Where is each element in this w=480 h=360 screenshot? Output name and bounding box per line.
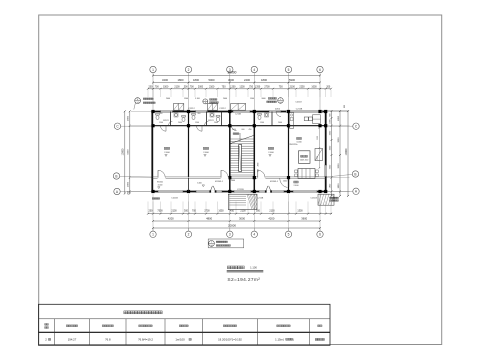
door arc office2 at B line bbox=[221, 176, 229, 178]
svg-text:3: 3 bbox=[229, 233, 231, 237]
svg-text:1500: 1500 bbox=[163, 87, 169, 89]
entrance steps bbox=[229, 195, 246, 197]
svg-text:600: 600 bbox=[242, 129, 245, 131]
elevator label bbox=[301, 155, 303, 157]
svg-text:1500: 1500 bbox=[184, 98, 188, 100]
interior railing line axis B (double thin) bbox=[152, 176, 325, 178]
svg-text:1800: 1800 bbox=[261, 78, 267, 82]
svg-text:1050: 1050 bbox=[218, 211, 224, 213]
svg-text:8: 8 bbox=[205, 103, 206, 105]
svg-text:14: 14 bbox=[210, 245, 212, 247]
svg-text:C211B: C211B bbox=[171, 198, 178, 200]
svg-text:10000: 10000 bbox=[345, 148, 348, 155]
table column lines bbox=[54, 319, 56, 346]
svg-text:C2118: C2118 bbox=[295, 101, 302, 103]
svg-text:2: 2 bbox=[45, 337, 47, 341]
svg-text:2.600: 2.600 bbox=[164, 152, 170, 154]
svg-text:B: B bbox=[115, 174, 117, 178]
svg-text:2000: 2000 bbox=[214, 122, 218, 124]
svg-text:3000: 3000 bbox=[261, 98, 265, 100]
svg-text:3000: 3000 bbox=[338, 137, 340, 143]
svg-text:2: 2 bbox=[188, 233, 190, 237]
svg-text:1800: 1800 bbox=[338, 183, 340, 189]
svg-text:1: 1 bbox=[152, 233, 154, 237]
svg-text:1000: 1000 bbox=[311, 87, 317, 89]
svg-text:A: A bbox=[355, 190, 358, 194]
vent shaft box bay2 bbox=[208, 104, 218, 111]
svg-text:S2=194.27m²: S2=194.27m² bbox=[227, 277, 260, 283]
svg-text:750: 750 bbox=[279, 87, 284, 89]
svg-text:2.600: 2.600 bbox=[293, 185, 299, 187]
front room partition unit4 bbox=[271, 112, 273, 126]
svg-text:5: 5 bbox=[288, 233, 290, 237]
detail bubble top-right with note bbox=[278, 98, 284, 104]
door arc toilet unit1 bbox=[161, 126, 167, 132]
svg-text:2000: 2000 bbox=[178, 122, 182, 124]
bottom dimension detail line bbox=[148, 213, 332, 215]
stair wall axis 4 bbox=[253, 112, 255, 192]
svg-text:M1503-1: M1503-1 bbox=[270, 181, 279, 183]
stair door arc at C wall bbox=[232, 126, 237, 131]
svg-text:1800: 1800 bbox=[127, 115, 129, 121]
svg-text:1400: 1400 bbox=[197, 183, 202, 185]
window C211B bottom wall bay4 bbox=[259, 190, 284, 192]
svg-text:14: 14 bbox=[280, 102, 282, 104]
svg-text:2000: 2000 bbox=[231, 180, 235, 182]
svg-text:6300: 6300 bbox=[127, 149, 129, 155]
svg-text:1.15m(: 1.15m( bbox=[275, 337, 284, 341]
svg-text:2.600: 2.600 bbox=[203, 152, 209, 154]
room label office1 with level mark bbox=[164, 147, 167, 149]
svg-text:2000: 2000 bbox=[278, 122, 282, 124]
svg-text:1500: 1500 bbox=[317, 136, 319, 140]
window right wall bbox=[325, 165, 327, 177]
dining room level bbox=[294, 181, 296, 183]
svg-text:300: 300 bbox=[184, 87, 189, 89]
svg-text:2000: 2000 bbox=[329, 145, 331, 150]
svg-text:1500: 1500 bbox=[260, 122, 264, 124]
room label office4 with level mark bbox=[268, 147, 271, 149]
window C211B bottom wall stair bay bbox=[234, 190, 251, 192]
svg-text:1800: 1800 bbox=[193, 78, 199, 82]
svg-text:700: 700 bbox=[192, 211, 197, 213]
axis bubble A right bbox=[353, 188, 359, 194]
svg-text:200: 200 bbox=[149, 211, 154, 213]
svg-text:200: 200 bbox=[326, 87, 331, 89]
svg-text:A: A bbox=[116, 190, 119, 194]
room label kitchen bbox=[297, 137, 299, 139]
svg-text:14: 14 bbox=[137, 102, 139, 104]
toilet room partition unit1 bbox=[170, 112, 172, 126]
svg-text:1350: 1350 bbox=[255, 87, 261, 89]
vent shaft box bay1 bbox=[174, 104, 184, 111]
balcony divider wall in strip bbox=[188, 178, 190, 192]
top dimension line detail segments bbox=[148, 88, 331, 90]
svg-text:1500: 1500 bbox=[250, 98, 254, 100]
stair label bbox=[233, 133, 235, 135]
entrance porch outline below stair bay bbox=[228, 194, 257, 209]
svg-text:4200: 4200 bbox=[168, 216, 174, 220]
svg-text:3000: 3000 bbox=[239, 216, 245, 220]
right dimension detail line bbox=[331, 111, 333, 196]
table headers bbox=[66, 325, 68, 327]
svg-text:2250: 2250 bbox=[299, 87, 305, 89]
door arc D202 unit4 bbox=[276, 112, 281, 117]
door arc office1 at B line bbox=[158, 176, 166, 178]
duct shaft with diagonal bbox=[315, 149, 323, 161]
axis bubble B left bbox=[113, 173, 119, 179]
title underline thin bbox=[227, 272, 264, 274]
svg-text:M1521: M1521 bbox=[208, 120, 214, 122]
axis grid bubbles top (1-6) bbox=[150, 66, 156, 72]
door arcs in band at C wall bbox=[169, 121, 173, 125]
svg-text:2100: 2100 bbox=[269, 211, 275, 213]
svg-text:6: 6 bbox=[319, 68, 321, 72]
kitchen top right cabinet bbox=[313, 115, 321, 124]
svg-text:3000: 3000 bbox=[228, 78, 234, 82]
svg-text:D202: D202 bbox=[275, 108, 281, 110]
window C211B top wall stair bay bbox=[233, 110, 250, 112]
axis bubble C left bbox=[114, 123, 120, 129]
toilet fixtures unit2 bbox=[192, 115, 195, 119]
svg-text:C211B: C211B bbox=[235, 114, 242, 116]
railing note bottom right bbox=[330, 197, 332, 198]
svg-text:2000: 2000 bbox=[258, 163, 260, 167]
small store partition unit2 bbox=[221, 112, 223, 126]
structural columns (filled squares) bbox=[151, 110, 154, 113]
entrance ramp hatch bbox=[247, 195, 252, 210]
svg-text:4: 4 bbox=[253, 233, 255, 237]
svg-text:240X.320: 240X.320 bbox=[300, 160, 309, 162]
svg-text:200: 200 bbox=[344, 104, 346, 108]
svg-text:3400: 3400 bbox=[162, 78, 168, 82]
room label office2 with level mark bbox=[203, 147, 206, 149]
svg-text:1200: 1200 bbox=[230, 87, 236, 89]
svg-text:6: 6 bbox=[319, 233, 321, 237]
svg-text:1:100: 1:100 bbox=[250, 266, 257, 270]
svg-text:3.100: 3.100 bbox=[195, 98, 200, 100]
axis bubble A left bbox=[114, 188, 120, 194]
svg-text:3600: 3600 bbox=[301, 216, 307, 220]
window C211B bottom wall bay1 bbox=[158, 190, 183, 192]
svg-text:800: 800 bbox=[198, 113, 201, 115]
axis grid bubbles bottom (1-6) bbox=[150, 231, 156, 237]
top sub-dimension extension lines bbox=[147, 90, 149, 97]
left exterior wall bbox=[151, 111, 153, 193]
kitchen appliance squares bbox=[304, 117, 308, 121]
staircase break line bbox=[231, 136, 254, 144]
svg-text:): ) bbox=[293, 337, 294, 341]
svg-text:W1501: W1501 bbox=[157, 182, 163, 184]
svg-text:2000: 2000 bbox=[166, 98, 170, 100]
svg-text:900: 900 bbox=[160, 113, 163, 115]
left dimension line total 10000 bbox=[124, 111, 126, 193]
drawing title (2nd floor plan) bbox=[227, 266, 230, 269]
svg-text:C211B: C211B bbox=[257, 198, 264, 200]
svg-text:1800: 1800 bbox=[178, 78, 184, 82]
window C211B bottom wall bay5 bbox=[293, 190, 317, 192]
svg-text:1400: 1400 bbox=[283, 180, 288, 182]
detail bubble top-left with note bbox=[135, 98, 141, 104]
svg-text:300: 300 bbox=[184, 211, 189, 213]
right dimension mid line bbox=[339, 111, 341, 196]
svg-text:C211B: C211B bbox=[237, 189, 244, 191]
table title bbox=[124, 311, 127, 314]
axis bubble C right bbox=[353, 123, 359, 129]
svg-text:4800: 4800 bbox=[206, 216, 212, 220]
axis bubble B right bbox=[352, 171, 358, 177]
svg-text:700: 700 bbox=[155, 87, 160, 89]
svg-text:1800: 1800 bbox=[329, 183, 331, 188]
svg-text:600: 600 bbox=[329, 112, 331, 116]
svg-text:2700: 2700 bbox=[204, 211, 210, 213]
right dimension total line 10000 bbox=[347, 111, 349, 196]
svg-text:2100: 2100 bbox=[174, 87, 180, 89]
top exterior wall bbox=[151, 111, 326, 113]
stair wall axis 3 bbox=[229, 112, 231, 192]
door arc office4 at B line bbox=[257, 176, 265, 178]
note box bottom with detail bubble bbox=[208, 239, 244, 248]
bottom sub-dimension extension lines bbox=[147, 202, 149, 214]
toilet room partition unit2 bbox=[206, 112, 208, 126]
svg-text:2: 2 bbox=[188, 68, 190, 72]
right exterior wall bbox=[325, 111, 327, 193]
window C211B bottom wall bay2 bbox=[196, 190, 222, 192]
svg-text:194.27: 194.27 bbox=[68, 337, 77, 341]
interior wall axis C bbox=[152, 125, 325, 127]
top dimension line axis bays bbox=[153, 82, 320, 84]
svg-text:B: B bbox=[354, 172, 356, 176]
svg-text:19.20/100*1=0.192: 19.20/100*1=0.192 bbox=[218, 337, 242, 341]
svg-text:1: 1 bbox=[205, 100, 206, 102]
toilet fixtures unit4 bbox=[258, 115, 261, 119]
window C2118 top wall bay5 (long) bbox=[286, 110, 323, 112]
bottom dimension axis bay line bbox=[153, 220, 320, 222]
svg-text:76.8: 76.8 bbox=[105, 337, 111, 341]
vent shaft box stair bay (wide) bbox=[231, 104, 246, 111]
right wall to dims extension double line bbox=[326, 110, 349, 112]
svg-text:200: 200 bbox=[149, 87, 154, 89]
svg-text:200: 200 bbox=[127, 190, 129, 194]
left extension lines bbox=[131, 111, 152, 113]
svg-text:76.8/4=19.2: 76.8/4=19.2 bbox=[138, 337, 153, 341]
dining table bbox=[298, 169, 315, 179]
evacuation width calculation table outer border bbox=[39, 304, 331, 345]
svg-text:20000: 20000 bbox=[228, 71, 237, 75]
staircase center handrail bbox=[239, 145, 242, 172]
staircase treads bbox=[231, 138, 254, 140]
elevator label box bbox=[299, 151, 311, 164]
svg-text:300: 300 bbox=[256, 211, 261, 213]
interior wall axis 5 bbox=[288, 112, 290, 192]
door arc right unit bottom (leaf along axis5 wall) bbox=[288, 178, 290, 187]
svg-text:450: 450 bbox=[249, 129, 252, 131]
svg-text:3000: 3000 bbox=[338, 163, 340, 169]
svg-text:C: C bbox=[355, 125, 358, 129]
bottom axis extension lines bbox=[152, 194, 154, 231]
svg-text:1300: 1300 bbox=[297, 211, 303, 213]
svg-text:M1503-1: M1503-1 bbox=[215, 181, 224, 183]
railing note bottom left bbox=[152, 198, 154, 200]
svg-text:2000: 2000 bbox=[198, 87, 204, 89]
svg-text:2000: 2000 bbox=[223, 98, 227, 100]
title underline thick bbox=[227, 270, 264, 272]
svg-text:20000: 20000 bbox=[228, 223, 236, 227]
entry door leaf at A wall bay2 bbox=[210, 190, 216, 192]
door D202 top wall bay4 bbox=[269, 110, 281, 112]
svg-text:1m/100: 1m/100 bbox=[175, 337, 185, 341]
svg-text:700: 700 bbox=[190, 87, 195, 89]
svg-text:1200: 1200 bbox=[239, 87, 245, 89]
top dimension line total 20000 bbox=[153, 75, 320, 77]
svg-text:10000: 10000 bbox=[121, 148, 124, 155]
svg-text:2100: 2100 bbox=[240, 211, 246, 213]
svg-text:4: 4 bbox=[253, 68, 255, 72]
svg-text:1000: 1000 bbox=[329, 118, 331, 123]
sheet border frame bbox=[39, 15, 442, 345]
interior dimension line in right unit bbox=[318, 128, 320, 168]
svg-text:1500: 1500 bbox=[195, 122, 199, 124]
svg-text:2100: 2100 bbox=[209, 87, 215, 89]
svg-text:3000: 3000 bbox=[329, 164, 331, 169]
svg-text:3.000: 3.000 bbox=[158, 185, 163, 187]
svg-text:2400: 2400 bbox=[244, 78, 250, 82]
svg-text:2700: 2700 bbox=[264, 87, 270, 89]
svg-text:2100: 2100 bbox=[171, 211, 177, 213]
svg-text:C: C bbox=[116, 125, 119, 129]
svg-text:750: 750 bbox=[249, 87, 254, 89]
svg-text:M1521: M1521 bbox=[163, 120, 169, 122]
svg-text:C1212: C1212 bbox=[219, 108, 226, 110]
table header underline thick bbox=[39, 331, 331, 333]
svg-text:750: 750 bbox=[222, 87, 227, 89]
svg-text:FW1121b: FW1121b bbox=[289, 144, 299, 146]
bottom dimension total line 20000 bbox=[153, 227, 320, 229]
svg-text:C211B: C211B bbox=[296, 108, 303, 110]
svg-text:1800: 1800 bbox=[338, 115, 340, 121]
window C1212 top wall bay2 bbox=[196, 110, 208, 112]
svg-text:5: 5 bbox=[288, 68, 290, 72]
svg-text:C1212: C1212 bbox=[188, 108, 195, 110]
svg-text:1800: 1800 bbox=[127, 181, 129, 187]
window C1212 top wall bay1 bbox=[161, 110, 173, 112]
svg-text:C211B: C211B bbox=[310, 198, 317, 200]
svg-text:2100: 2100 bbox=[290, 87, 296, 89]
left dimension line segments bbox=[129, 111, 131, 193]
svg-text:2.600: 2.600 bbox=[268, 152, 274, 154]
svg-text:5900: 5900 bbox=[289, 78, 295, 82]
right extension lines bbox=[326, 125, 350, 127]
svg-text:1500: 1500 bbox=[159, 122, 163, 124]
door arc toilet unit2 bbox=[197, 126, 203, 132]
right-side exterior stair hatch bbox=[318, 194, 334, 205]
svg-text:4200: 4200 bbox=[268, 216, 274, 220]
table header top line bbox=[39, 318, 331, 320]
svg-text:450: 450 bbox=[230, 211, 235, 213]
svg-text:2000: 2000 bbox=[329, 130, 331, 135]
detail bubble top-center with note bbox=[203, 99, 208, 104]
interior wall axis 2 bbox=[188, 112, 190, 177]
bottom exterior wall (axis A) bbox=[151, 191, 326, 193]
staircase direction arrow bbox=[239, 133, 241, 141]
kitchen counter strip left bbox=[290, 113, 294, 129]
svg-text:1: 1 bbox=[152, 68, 154, 72]
entry door leaf at A wall bay4 bbox=[265, 190, 271, 192]
svg-text:1100: 1100 bbox=[317, 156, 319, 160]
svg-text:5000: 5000 bbox=[209, 78, 215, 82]
toilet fixtures unit1 bbox=[156, 115, 159, 119]
svg-text:7500: 7500 bbox=[157, 211, 163, 213]
